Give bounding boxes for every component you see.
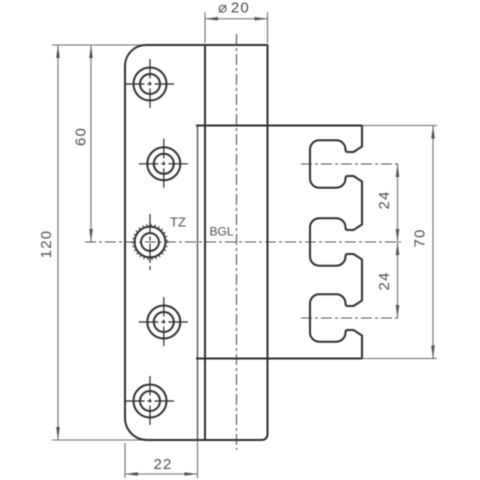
svg-text:22: 22 [153, 456, 172, 473]
svg-text:⌀20: ⌀20 [218, 0, 250, 17]
svg-text:60: 60 [72, 127, 89, 146]
svg-text:70: 70 [411, 228, 428, 247]
svg-text:BGL: BGL [209, 225, 233, 239]
svg-text:TZ: TZ [170, 215, 186, 230]
svg-text:120: 120 [38, 230, 55, 259]
svg-text:24: 24 [376, 271, 393, 290]
svg-text:24: 24 [376, 190, 393, 209]
